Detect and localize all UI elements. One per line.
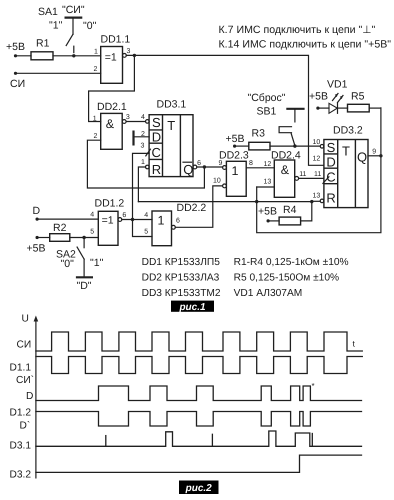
svg-text:2: 2 bbox=[94, 133, 98, 140]
svg-text:+5В: +5В bbox=[226, 133, 245, 145]
svg-text:DD2.1: DD2.1 bbox=[97, 101, 127, 113]
svg-text:9: 9 bbox=[372, 149, 376, 156]
svg-text:DD2.2: DD2.2 bbox=[177, 202, 207, 214]
svg-text:рис.1: рис.1 bbox=[178, 302, 206, 313]
svg-text:"0": "0" bbox=[83, 20, 97, 32]
svg-text:11: 11 bbox=[314, 171, 321, 178]
svg-text:DD3.2: DD3.2 bbox=[333, 125, 363, 137]
svg-text:DD2 КР1533ЛА3: DD2 КР1533ЛА3 bbox=[142, 273, 220, 284]
svg-text:+5В: +5В bbox=[258, 206, 277, 218]
svg-text:СИ`: СИ` bbox=[16, 375, 34, 386]
svg-text:К.14 ИМС подключить к цепи "+5: К.14 ИМС подключить к цепи "+5В" bbox=[219, 39, 392, 51]
svg-text:5: 5 bbox=[144, 229, 148, 236]
svg-text:D3.1: D3.1 bbox=[10, 441, 32, 452]
svg-text:рис.2: рис.2 bbox=[185, 483, 213, 494]
svg-text:"СИ": "СИ" bbox=[62, 4, 85, 16]
svg-text:1: 1 bbox=[158, 214, 165, 228]
svg-text:DD3 КР1533ТМ2: DD3 КР1533ТМ2 bbox=[142, 288, 221, 299]
svg-text:T: T bbox=[167, 118, 175, 133]
svg-text:3: 3 bbox=[127, 48, 131, 55]
svg-text:13: 13 bbox=[313, 193, 321, 200]
svg-text:СИ: СИ bbox=[10, 78, 25, 90]
svg-text:T: T bbox=[342, 143, 350, 158]
svg-text:12: 12 bbox=[313, 156, 321, 163]
svg-text:+5В: +5В bbox=[27, 243, 46, 255]
svg-text:DD2.3: DD2.3 bbox=[219, 150, 249, 162]
svg-text:4: 4 bbox=[141, 114, 145, 121]
svg-text:DD3.1: DD3.1 bbox=[157, 99, 187, 111]
svg-text:"1": "1" bbox=[49, 20, 63, 32]
svg-text:3: 3 bbox=[141, 143, 145, 150]
svg-text:СИ: СИ bbox=[17, 339, 32, 350]
svg-text:DD1.2: DD1.2 bbox=[95, 198, 125, 210]
svg-text:=1: =1 bbox=[102, 214, 114, 226]
svg-text:S: S bbox=[152, 115, 161, 130]
svg-text:C: C bbox=[326, 170, 335, 185]
svg-text:+5В: +5В bbox=[309, 91, 328, 103]
svg-text:D1.1: D1.1 bbox=[10, 363, 32, 374]
svg-text:R5 0,125-150Ом ±10%: R5 0,125-150Ом ±10% bbox=[234, 273, 339, 284]
svg-text:&: & bbox=[281, 163, 290, 177]
svg-text:"0": "0" bbox=[61, 258, 75, 270]
svg-text:SB1: SB1 bbox=[257, 106, 277, 118]
svg-text:U: U bbox=[22, 314, 29, 325]
svg-text:+5В: +5В bbox=[6, 41, 25, 53]
svg-text:D3.2: D3.2 bbox=[10, 470, 32, 481]
svg-text:D`: D` bbox=[20, 421, 31, 432]
svg-text:R: R bbox=[152, 162, 161, 177]
svg-text:8: 8 bbox=[249, 160, 253, 167]
svg-text:R3: R3 bbox=[252, 128, 266, 140]
svg-text:D: D bbox=[26, 391, 33, 402]
svg-text:Q: Q bbox=[357, 150, 367, 165]
svg-text:SA1: SA1 bbox=[38, 6, 58, 18]
svg-text:R2: R2 bbox=[53, 222, 67, 234]
svg-text:"D": "D" bbox=[77, 280, 92, 292]
svg-text:R1: R1 bbox=[36, 38, 50, 50]
svg-text:1: 1 bbox=[141, 159, 145, 166]
svg-text:10: 10 bbox=[313, 139, 321, 146]
svg-text:10: 10 bbox=[213, 178, 221, 185]
svg-text:R: R bbox=[326, 191, 335, 206]
svg-text:"Сброс": "Сброс" bbox=[248, 92, 286, 104]
svg-text:*: * bbox=[312, 382, 315, 391]
svg-text:12: 12 bbox=[264, 161, 272, 168]
svg-text:D: D bbox=[33, 205, 41, 217]
svg-text:13: 13 bbox=[264, 179, 272, 186]
svg-text:D1.2: D1.2 bbox=[10, 407, 32, 418]
svg-text:1: 1 bbox=[232, 164, 239, 178]
svg-text:VD1: VD1 bbox=[327, 79, 348, 91]
svg-text:R5: R5 bbox=[351, 91, 365, 103]
svg-text:2: 2 bbox=[94, 66, 98, 73]
svg-text:6: 6 bbox=[197, 160, 201, 167]
svg-text:DD1 КР1533ЛП5: DD1 КР1533ЛП5 bbox=[142, 257, 221, 268]
svg-text:6: 6 bbox=[122, 212, 126, 219]
svg-text:D: D bbox=[152, 129, 161, 144]
svg-text:1: 1 bbox=[93, 116, 97, 123]
svg-text:1: 1 bbox=[94, 49, 98, 56]
svg-text:4: 4 bbox=[90, 212, 94, 219]
svg-text:D: D bbox=[326, 154, 335, 169]
svg-text:C: C bbox=[152, 145, 161, 160]
svg-text:3: 3 bbox=[126, 114, 130, 121]
svg-text:R4: R4 bbox=[283, 204, 297, 216]
svg-text:К.7 ИМС подключить к цепи "⊥": К.7 ИМС подключить к цепи "⊥" bbox=[219, 24, 376, 36]
svg-text:&: & bbox=[106, 117, 115, 131]
svg-text:Q: Q bbox=[183, 162, 193, 177]
svg-text:5: 5 bbox=[90, 229, 94, 236]
svg-text:4: 4 bbox=[144, 212, 148, 219]
svg-text:"1": "1" bbox=[90, 257, 104, 269]
svg-text:DD2.4: DD2.4 bbox=[271, 150, 301, 162]
svg-text:DD1.1: DD1.1 bbox=[101, 34, 131, 46]
svg-text:VD1 АЛ307АМ: VD1 АЛ307АМ bbox=[234, 288, 303, 299]
svg-text:S: S bbox=[327, 140, 336, 155]
svg-text:11: 11 bbox=[299, 171, 306, 178]
svg-text:R1-R4 0,125-1кОм ±10%: R1-R4 0,125-1кОм ±10% bbox=[234, 257, 349, 268]
svg-text:=1: =1 bbox=[105, 52, 117, 64]
svg-text:6: 6 bbox=[176, 218, 180, 225]
